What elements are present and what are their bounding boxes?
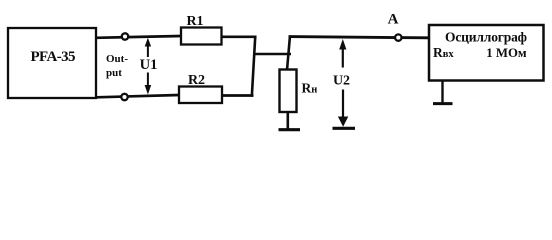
svg-text:R1: R1 <box>186 14 203 29</box>
svg-text:A: A <box>388 12 399 28</box>
ground oscilloscope <box>433 102 453 105</box>
voltage arrow U1 <box>145 38 152 95</box>
wire junction to load node <box>253 53 291 56</box>
svg-text:R2: R2 <box>188 73 205 88</box>
svg-text:U1: U1 <box>140 57 158 73</box>
svg-text:PFA-35: PFA-35 <box>31 49 76 65</box>
resistor R1 <box>181 28 222 45</box>
svg-text:put: put <box>106 67 122 79</box>
wire R1 to junction <box>222 35 257 38</box>
wire R2 to junction <box>222 94 254 97</box>
svg-text:Out-: Out- <box>106 53 128 65</box>
terminal node A <box>395 34 401 40</box>
wire junction vertical R1-R2 <box>252 36 256 97</box>
ground bar U2 <box>333 127 356 130</box>
terminal bottom output <box>121 94 127 100</box>
label Output <box>106 53 128 79</box>
svg-text:U2: U2 <box>333 73 350 88</box>
wire output bus to node A <box>289 37 430 38</box>
wire Rн to ground <box>286 112 289 129</box>
wire generator top output <box>96 36 181 38</box>
voltage arrow U2 <box>338 39 348 127</box>
generator box PFA-35 <box>8 28 96 98</box>
oscilloscope box <box>429 25 544 81</box>
terminal top output <box>122 33 128 39</box>
ground Rн <box>279 128 301 131</box>
resistor Rн <box>280 70 297 113</box>
wire load node vertical <box>287 36 290 70</box>
svg-text:1 МОм: 1 МОм <box>486 46 527 60</box>
wire generator bottom output <box>96 95 179 97</box>
resistor R2 <box>179 87 222 104</box>
svg-text:Осциллограф: Осциллограф <box>445 30 527 45</box>
wire oscilloscope to ground <box>441 81 443 103</box>
